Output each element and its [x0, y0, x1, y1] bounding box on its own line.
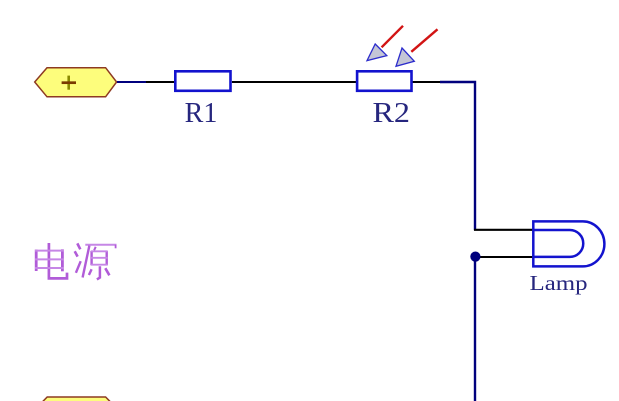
svg-text:Lamp: Lamp [530, 271, 588, 295]
svg-text:R1: R1 [185, 98, 218, 129]
svg-text:R2: R2 [373, 98, 411, 129]
